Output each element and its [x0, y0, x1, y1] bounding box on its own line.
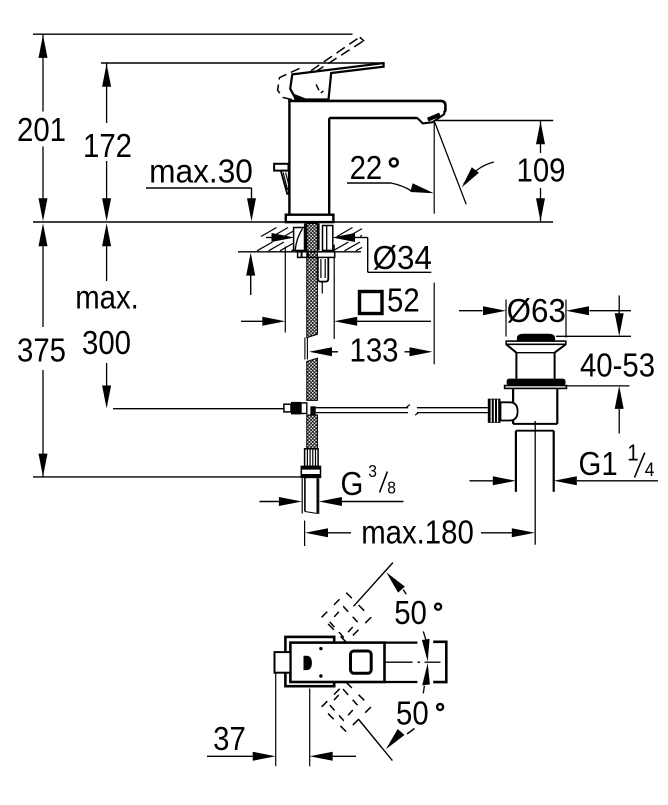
left wedge washer: [294, 228, 305, 251]
svg-text:3: 3: [368, 461, 377, 481]
waste rubber seal ring: [507, 379, 566, 386]
faucet lever dashed body outline: [278, 68, 300, 99]
waste coupling: [513, 423, 557, 425]
plan centerline dash-dot: [386, 661, 413, 663]
aerator dark slot: [428, 114, 440, 119]
plan dashed diamond lower inner: [330, 690, 358, 721]
dimension max.180 (waste distance): [305, 528, 328, 537]
svg-text:max.: max.: [75, 279, 139, 316]
waste tail pipe: [515, 431, 517, 492]
plan 50deg upper leader line: [354, 563, 393, 607]
svg-text:G: G: [341, 465, 364, 502]
plan faucet body: [290, 643, 384, 682]
waste inner rod: [534, 421, 536, 545]
pop-up rod guide: [318, 258, 329, 282]
plan dashed diamond upper outer: [322, 593, 371, 643]
countertop hatching: [257, 242, 273, 251]
svg-text:Ø63: Ø63: [507, 292, 566, 329]
right washer: [323, 226, 333, 251]
svg-text:300: 300: [82, 324, 131, 361]
svg-text:172: 172: [83, 127, 132, 164]
svg-text:22: 22: [350, 149, 383, 186]
svg-text:max.30: max.30: [149, 153, 253, 190]
plan spout end cap bracket: [433, 642, 446, 682]
horizontal pop-up rod right segment: [417, 407, 488, 409]
horizontal pop-up rod left segment: [316, 407, 408, 409]
svg-text:G1: G1: [579, 445, 618, 482]
pop-up pull rod knob wedge: [281, 171, 289, 194]
svg-text:50: 50: [394, 595, 427, 632]
svg-text:375: 375: [17, 332, 66, 369]
flexible hose braid upper: [307, 224, 318, 338]
hose G3/8 ribbed section: [305, 449, 319, 467]
faucet lever (solid): [290, 63, 383, 99]
rod left fitting dark block: [291, 402, 301, 415]
waste lower flange: [505, 386, 567, 389]
hose G3/8 nut: [301, 466, 320, 477]
plan 50deg lower leader line: [358, 719, 392, 761]
svg-text:8: 8: [387, 478, 396, 498]
dimension 37 (lever offset): [275, 674, 277, 767]
svg-text:133: 133: [350, 332, 399, 369]
dimension G3/8 (supply connection): [260, 501, 279, 503]
dimension 133 (spout projection): [309, 347, 332, 356]
waste taper: [506, 344, 516, 352]
plan rotation arrow lower (arc bowtie): [422, 663, 430, 685]
faucet lever dashed tip: [360, 37, 364, 41]
dimension 40-53 (basin thickness): [618, 295, 620, 314]
waste rod collar: [501, 402, 518, 420]
plan 50deg lower arrow: [386, 729, 405, 749]
dimension 109 (spout height): [436, 120, 553, 122]
angle arc arrow: [464, 162, 494, 184]
plan screw dot lower: [319, 674, 322, 677]
faucet body column right edge: [328, 118, 330, 215]
shank right dark bar: [317, 224, 319, 251]
plan rotation arrow upper (arc bowtie): [422, 639, 430, 662]
dimension 201 (height to raised lever top): [42, 34, 44, 111]
waste knurled knob: [488, 399, 501, 423]
plan screw dot upper: [319, 647, 322, 650]
dimension square52 (base footprint): [360, 292, 383, 314]
lever pivot dark wedge: [293, 94, 310, 101]
plan spout tube: [385, 641, 418, 643]
hose G3/8 pipe: [304, 477, 306, 511]
faucet body underside: [329, 117, 417, 119]
faucet lever dashed (raised position) blade line A: [311, 37, 360, 70]
ref line top of lever (172 reference): [101, 62, 384, 64]
svg-text:1: 1: [627, 440, 638, 466]
dimension 375 (total depth below top line): [42, 242, 44, 327]
shank left dark bar: [304, 224, 307, 259]
waste cap dome: [518, 334, 555, 341]
plan spout square: [351, 651, 372, 673]
plan dashed diamond lower outer: [322, 682, 371, 731]
mounting plate with screws: [298, 252, 335, 258]
plan base plate: [285, 637, 334, 686]
svg-text:201: 201: [17, 111, 66, 148]
pop-up pull rod knob (bar): [274, 164, 288, 171]
dimension diameter63 (waste flange): [459, 310, 483, 312]
svg-text:37: 37: [213, 720, 246, 757]
flexible hose braid lower: [307, 415, 318, 449]
ref line top of raised lever (201 reference): [33, 33, 353, 35]
plan 50deg upper arrow: [386, 572, 405, 592]
faucet lever dashed lower right edge: [316, 84, 323, 93]
dimension G1 1/4 (waste thread): [470, 480, 493, 482]
faucet body column left edge: [288, 101, 290, 215]
svg-text:max.180: max.180: [361, 514, 474, 551]
waste top flange: [506, 341, 566, 344]
water stream line (22deg): [435, 122, 466, 204]
waste neck: [515, 353, 517, 379]
extension line at spout tip: [433, 122, 435, 214]
faucet spout bevel (aerator): [417, 113, 444, 124]
svg-text:4: 4: [645, 458, 655, 480]
rod dark cap: [310, 406, 315, 414]
faucet body top edge and right edge: [288, 101, 445, 113]
faucet lever dashed blade line B: [315, 41, 364, 73]
svg-text:52: 52: [387, 282, 420, 319]
countertop top surface line: [33, 221, 553, 223]
plan lever tip: [275, 652, 291, 673]
svg-text:40-53: 40-53: [580, 347, 655, 384]
plan dashed diamond upper inner: [330, 607, 358, 638]
max300 reference line: [113, 408, 284, 410]
rod left fitting box: [284, 404, 291, 412]
svg-text:50: 50: [396, 695, 429, 732]
svg-text:109: 109: [517, 152, 566, 189]
hose break thin lines: [304, 338, 306, 360]
rod break marks: [407, 405, 410, 408]
waste body: [512, 388, 514, 424]
faucet base plate: [286, 215, 334, 222]
plan cartridge dark blob: [304, 656, 311, 669]
dimension max.300 (mounting depth): [106, 242, 108, 281]
countertop bottom surface line: [238, 251, 361, 253]
pop-up rod stub: [321, 282, 323, 294]
dimension 172 (height to lever top): [106, 63, 108, 123]
flexible hose braid middle: [307, 358, 318, 400]
svg-text:Ø34: Ø34: [373, 239, 432, 276]
dimension diameter34 (mounting hole): [266, 237, 272, 239]
rod left collar: [301, 403, 307, 414]
